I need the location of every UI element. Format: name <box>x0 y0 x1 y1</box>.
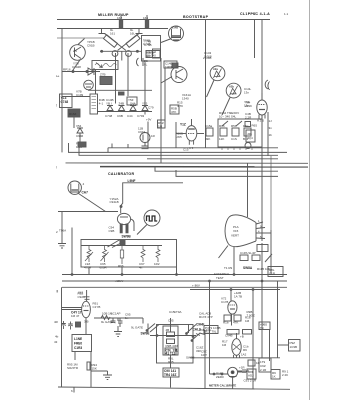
svg-text:VERT: VERT <box>231 234 239 238</box>
wire h318 <box>94 317 143 319</box>
wire meter drop <box>232 377 234 389</box>
resistor box R195 <box>271 370 280 380</box>
svg-text:C9B: C9B <box>117 114 123 118</box>
svg-text:R17Z 4TP: R17Z 4TP <box>199 315 213 319</box>
svg-text:1MT: 1MT <box>201 353 207 357</box>
svg-text:SW9E: SW9E <box>141 332 150 336</box>
wire rail 274 <box>62 274 287 276</box>
wire top rail <box>57 19 270 21</box>
component R191 <box>238 369 249 373</box>
node stub 164 <box>146 15 148 29</box>
resistor R117 diagonal <box>126 35 140 48</box>
wire v262 tall <box>261 115 263 241</box>
capacitor C94c dark <box>76 322 81 327</box>
svg-text:2 2K: 2 2K <box>282 373 288 377</box>
resistor ladder box on x161 <box>158 120 166 128</box>
capacitor C130 <box>142 143 149 149</box>
wire q148 lead <box>161 77 172 84</box>
fan pin 1 <box>256 222 263 224</box>
wire drop from Q135 <box>72 60 80 72</box>
junction dark C148b <box>172 63 178 68</box>
box C166 <box>246 130 255 142</box>
svg-text:1W5: 1W5 <box>176 135 183 139</box>
svg-text:13n: 13n <box>244 91 249 95</box>
wire v128 <box>127 53 129 96</box>
svg-text:ADJ: ADJ <box>248 374 254 378</box>
box R192 ADJ <box>247 369 256 379</box>
svg-text:1C1AP: 1C1AP <box>111 312 121 316</box>
wire v277 <box>277 281 279 358</box>
wire box drop b <box>121 267 123 275</box>
wire tube to box <box>161 39 172 43</box>
svg-text:|||: ||| <box>56 289 59 293</box>
wire h322 mid <box>142 318 144 324</box>
wire tube left pins <box>62 307 82 309</box>
svg-text:T9: T9 <box>260 326 264 330</box>
node junction e <box>101 50 103 52</box>
wire rail H <box>176 170 278 176</box>
svg-text:Z4B: Z4B <box>119 102 125 106</box>
tube V164 <box>257 100 267 115</box>
resistor R174 <box>234 315 241 321</box>
wire h89 <box>88 89 152 91</box>
wire third rail (light) <box>57 37 104 39</box>
resistor R155 <box>206 128 213 136</box>
fan pin 3 <box>256 232 266 234</box>
wire waveform lead <box>137 225 147 235</box>
wire cap stub <box>117 318 119 321</box>
tube pins <box>259 115 265 120</box>
svg-text:YB I: YB I <box>106 102 112 106</box>
capacitor on stem <box>85 297 90 300</box>
wire mid drop <box>204 330 206 389</box>
box R189 top <box>243 330 252 335</box>
node junction f <box>136 50 138 52</box>
capacitor C112 <box>111 318 116 323</box>
dark box R16Z <box>68 109 80 117</box>
wire second rail <box>57 28 168 30</box>
wire box drop a <box>88 267 90 275</box>
wire box right drop <box>160 58 162 158</box>
svg-text:164: 164 <box>143 16 148 20</box>
wire v262 <box>261 277 263 358</box>
svg-text:C92B: C92B <box>78 295 86 299</box>
svg-text:47K: 47K <box>233 321 238 325</box>
resistor C98 <box>156 246 160 263</box>
wire v253 <box>252 290 254 390</box>
svg-text:C14B: C14B <box>106 98 114 102</box>
box fan aux <box>257 245 268 252</box>
svg-text:RP16: RP16 <box>63 68 71 72</box>
switch wiper SW150a <box>222 121 242 126</box>
wire attn spine <box>170 318 172 332</box>
box C94 inner <box>153 49 161 58</box>
wire q135 top lead <box>78 39 85 45</box>
grid boxes right <box>170 105 179 114</box>
svg-text:2199: 2199 <box>245 104 252 108</box>
svg-text:SW9B: SW9B <box>122 235 132 239</box>
transistor Q135 circle <box>70 45 86 61</box>
wire v269 <box>269 330 271 362</box>
svg-text:1n: 1n <box>125 316 129 320</box>
transistor bubble b <box>126 51 132 57</box>
svg-text:MILLER RUNUP: MILLER RUNUP <box>98 13 129 17</box>
tube V161 oscillator circle <box>82 301 91 317</box>
ground g2 <box>103 371 112 380</box>
svg-text:9L GATE: 9L GATE <box>101 320 113 324</box>
attenuator outer box <box>157 325 194 364</box>
svg-text:R65: R65 <box>252 124 258 128</box>
svg-text:10 - 340 S4L: 10 - 340 S4L <box>219 115 237 119</box>
svg-text:V54: V54 <box>76 124 82 128</box>
svg-text:CA7: CA7 <box>82 191 89 195</box>
box V5A <box>60 94 73 108</box>
svg-text:C1S: C1S <box>231 137 237 141</box>
test point A2 circle <box>226 83 241 98</box>
component T9R dark <box>78 142 86 147</box>
box V152 stub <box>127 97 137 105</box>
wire fan feed a <box>247 164 249 218</box>
wire rail 358 <box>190 357 280 359</box>
svg-text:C74B: C74B <box>143 42 151 46</box>
diode bar D117 <box>136 29 143 34</box>
wire rail G <box>155 167 278 171</box>
svg-text:C1R: C1R <box>269 272 276 276</box>
wire v268 <box>267 112 269 156</box>
CRT fan V159 <box>225 215 256 247</box>
section divider thick <box>100 166 308 168</box>
resistor R181 <box>240 255 248 261</box>
svg-text:V15: V15 <box>233 229 239 233</box>
svg-text:16L: 16L <box>130 32 135 36</box>
svg-text:T1 R9: T1 R9 <box>224 266 233 270</box>
label box C148 <box>164 61 177 68</box>
svg-text:C946: C946 <box>76 134 84 138</box>
wire v262 upper <box>261 243 263 277</box>
switch SW1C right <box>186 324 200 336</box>
svg-text:1A 7B: 1A 7B <box>234 295 242 299</box>
diode Z4B <box>119 106 125 111</box>
wire wiper row <box>150 335 196 337</box>
box R188 top <box>227 330 239 335</box>
svg-text:9L: 9L <box>110 28 114 32</box>
wire h211 <box>58 211 118 213</box>
wire delay to R14B <box>95 70 97 95</box>
wire lf drop2 <box>74 352 76 361</box>
wire rail C <box>79 147 278 155</box>
svg-text:C9HF: C9HF <box>196 323 204 327</box>
svg-text:R96: R96 <box>118 264 124 268</box>
node junction b <box>86 71 88 73</box>
wire left vert x62b <box>61 212 63 242</box>
wire cal diagonal <box>79 194 106 212</box>
svg-text:CALIBRATOR: CALIBRATOR <box>108 172 135 176</box>
diode VB1 <box>107 106 113 111</box>
wire h96 <box>62 96 90 98</box>
ground cal left <box>58 241 66 248</box>
capacitor C94a <box>61 321 66 329</box>
wire rail E <box>66 162 309 164</box>
coupling box C120 <box>146 51 160 58</box>
transistor T11B <box>140 133 150 143</box>
svg-text:TEST: TEST <box>216 276 224 280</box>
svg-text:ZER0: ZER0 <box>216 375 224 379</box>
wire emitter row <box>62 71 100 73</box>
switch box pin stubs <box>222 147 252 150</box>
capacitor C plate <box>265 80 268 89</box>
svg-text:+10bV: +10bV <box>115 279 124 283</box>
resistor R96 <box>120 246 123 265</box>
tube V148 grid circle <box>169 26 184 41</box>
svg-text:1M: 1M <box>245 319 250 323</box>
diode bar D116 <box>99 29 106 34</box>
wire v145 to rail <box>144 90 146 105</box>
junction blob <box>119 92 125 95</box>
svg-text:C916: C916 <box>138 130 146 134</box>
svg-text:V14B: V14B <box>172 26 179 30</box>
node stub rail b <box>127 144 129 148</box>
svg-text:C178: C178 <box>221 300 229 304</box>
wire clipping drop 1 <box>254 20 256 59</box>
svg-text:R16Z: R16Z <box>69 112 77 116</box>
transistor Q148 circle <box>171 67 187 83</box>
svg-text:C9B: C9B <box>109 229 115 233</box>
wire rail 281 <box>62 280 287 282</box>
switch common pad <box>120 241 125 246</box>
svg-text:2 C6B: 2 C6B <box>203 56 211 60</box>
wire box drop c <box>176 267 178 275</box>
svg-text:9L GATE: 9L GATE <box>131 326 143 330</box>
tube V152 small <box>84 80 94 90</box>
node junction a <box>72 71 74 73</box>
svg-text:1M: 1M <box>158 125 163 129</box>
resistor R156 <box>220 128 227 136</box>
tube legs <box>120 224 122 233</box>
wire diode rail <box>98 111 153 113</box>
wire left main vertical <box>61 29 63 153</box>
tube pins <box>189 141 193 145</box>
wire fan left lead <box>219 246 229 259</box>
svg-text:1.1: 1.1 <box>284 12 289 16</box>
resistor C95 <box>101 246 109 263</box>
svg-text:T96A: T96A <box>59 229 66 233</box>
svg-text:16Z: 16Z <box>117 16 122 20</box>
inductor arrow <box>96 63 102 68</box>
svg-text:15K: 15K <box>92 367 97 371</box>
box T74B outer <box>142 36 161 62</box>
svg-text:2.2R: 2.2R <box>245 116 252 120</box>
svg-text:2 1R: 2 1R <box>260 368 267 372</box>
resistor R15K <box>87 362 90 370</box>
wire R16Z to V54 <box>74 117 80 142</box>
box R190 <box>259 358 271 372</box>
resistor Z7B dark box <box>100 77 112 85</box>
wire rail B <box>69 143 288 152</box>
meter M190 circle <box>228 367 238 377</box>
wire bootstrap drop <box>205 20 207 69</box>
wire collector row <box>100 50 141 52</box>
svg-text:4.7K: 4.7K <box>177 104 183 108</box>
wire h374 <box>210 373 228 375</box>
wire +9V drop <box>147 122 149 148</box>
wire rail 290 <box>190 289 280 291</box>
delay line box L120 <box>92 61 118 70</box>
svg-text:(: ( <box>56 165 57 169</box>
diode CR118 <box>88 68 94 75</box>
svg-text:C94LB: C94LB <box>110 200 119 204</box>
svg-text:R1b: R1b <box>223 321 229 325</box>
svg-text:1M 47: 1M 47 <box>71 314 80 318</box>
resistor L92 <box>85 246 93 263</box>
wire link v161 <box>160 152 162 163</box>
capacitor C113 <box>118 318 123 327</box>
resistor R158 <box>244 128 251 136</box>
page border line right <box>309 0 311 400</box>
box LINE FREQ <box>72 335 92 352</box>
svg-text:C1R3: C1R3 <box>74 346 82 350</box>
resistor R182 <box>252 255 260 261</box>
capacitor C94b <box>68 322 73 330</box>
wire box rail <box>81 245 162 247</box>
svg-text:47K: 47K <box>171 110 176 114</box>
svg-text:+ 86V: + 86V <box>192 283 200 287</box>
wire v115 <box>115 53 117 104</box>
svg-text:1M: 1M <box>222 343 227 347</box>
svg-text:49K: 49K <box>205 137 210 141</box>
diode S24A <box>130 106 136 111</box>
svg-text:S4A: S4A <box>130 102 136 106</box>
svg-text:TR4 16Z: TR4 16Z <box>164 373 176 377</box>
resistor R157 <box>232 128 239 136</box>
wire line feed <box>121 183 183 213</box>
svg-text:Le: Le <box>56 74 60 78</box>
test point A1 circle <box>210 66 225 81</box>
ground g1 <box>114 326 122 337</box>
resistor R161c dark <box>165 348 176 355</box>
svg-text:2N: 2N <box>73 49 77 53</box>
svg-text:3n: 3n <box>269 126 273 130</box>
tick 6 <box>73 387 75 393</box>
junction dots rails <box>71 274 73 276</box>
wire clipping drop 2 <box>261 20 263 100</box>
bottom rail <box>58 387 290 389</box>
wire v145 <box>144 60 146 90</box>
svg-text:C91B: C91B <box>87 44 95 48</box>
connector CAL jack circle <box>68 181 81 194</box>
svg-text:Z7B: Z7B <box>100 73 106 77</box>
svg-text:470R: 470R <box>84 265 92 269</box>
wire X arms <box>105 34 140 51</box>
box R14B tall <box>90 94 98 114</box>
transistor bubble a <box>112 51 118 57</box>
tube V183 circle <box>232 339 241 356</box>
svg-text:Y1Z: Y1Z <box>180 123 186 127</box>
wire meter right <box>238 371 247 373</box>
svg-text:C793: C793 <box>137 114 145 118</box>
svg-text:C79: C79 <box>148 106 154 110</box>
svg-text:600R: 600R <box>100 265 108 269</box>
svg-text:+C1: +C1 <box>251 12 257 16</box>
svg-text:1C9B: 1C9B <box>290 345 298 349</box>
wire lf drop <box>90 352 92 388</box>
svg-text:C91 2 1R: C91 2 1R <box>244 379 258 383</box>
resistor R116 diagonal <box>103 35 117 48</box>
svg-text:+9V: +9V <box>146 118 151 122</box>
svg-text:C748: C748 <box>105 114 113 118</box>
box R193 <box>248 360 255 366</box>
tube V172 circle <box>228 301 237 314</box>
wire v271 <box>270 156 272 230</box>
svg-text:SW8A: SW8A <box>243 266 253 270</box>
wire A1 lead <box>207 80 215 97</box>
fan pin 2 <box>256 228 265 229</box>
svg-text:+1R: +1R <box>239 366 245 370</box>
svg-text:1340: 1340 <box>182 97 189 101</box>
resistor R165 <box>245 122 251 127</box>
wire fan bottom drop <box>233 247 235 275</box>
wire x165 drop <box>164 68 166 122</box>
wire h371 <box>91 370 108 372</box>
box R9B5 <box>259 322 270 330</box>
svg-text:1K: 1K <box>272 375 276 379</box>
svg-text:C1YB: C1YB <box>93 305 101 309</box>
wire rail A <box>108 147 278 149</box>
wire fan out right <box>266 232 271 234</box>
svg-text:12K: 12K <box>219 137 224 141</box>
svg-text:1J: 1J <box>269 119 273 123</box>
resistor R161e below <box>163 368 179 377</box>
svg-text:A2b: A2b <box>229 85 234 89</box>
wire v231 lower <box>231 314 233 326</box>
resistor R173 <box>224 315 231 321</box>
wire tube right <box>197 133 204 135</box>
resistor R10B zigzag <box>101 316 110 320</box>
svg-text:T9A: T9A <box>176 310 182 314</box>
svg-text:C15a: C15a <box>205 124 213 128</box>
wire v108 drop <box>107 148 109 153</box>
wire left edge vert <box>61 287 63 387</box>
switch box SW150 <box>218 119 262 147</box>
zener V54 <box>77 128 83 139</box>
wire tube left <box>176 133 186 135</box>
svg-text:A 2-5: A 2-5 <box>257 119 264 123</box>
svg-text:C9B 22K: C9B 22K <box>199 328 211 332</box>
svg-text:+B: +B <box>240 335 244 339</box>
wire rail 287 <box>62 286 287 288</box>
wire left vert x72 <box>71 228 73 275</box>
wire V161 drop <box>205 68 207 148</box>
svg-text:4Q4: 4Q4 <box>247 136 253 140</box>
svg-text:4b: 4b <box>55 335 59 339</box>
svg-text:FRE0: FRE0 <box>74 342 82 346</box>
svg-text:R5b: R5b <box>231 124 237 128</box>
svg-text:1M86: 1M86 <box>165 65 173 69</box>
svg-text:R5c: R5c <box>243 124 249 128</box>
svg-text:1A2: 1A2 <box>241 353 247 357</box>
svg-text:SW9B: SW9B <box>186 356 195 360</box>
svg-text:4n: 4n <box>139 265 143 269</box>
svg-text:L1NE: L1NE <box>74 337 82 341</box>
tube V152B <box>186 126 197 141</box>
svg-text:C44: C44 <box>127 114 133 118</box>
switch SW1B left <box>146 324 159 333</box>
svg-text:S0L5TR: S0L5TR <box>67 366 79 370</box>
attenuator inner box <box>163 326 178 355</box>
svg-text:33K: 33K <box>196 349 201 353</box>
svg-text:1b: 1b <box>269 133 273 137</box>
box P9Z right <box>289 340 301 352</box>
resistor R161b <box>167 339 175 344</box>
